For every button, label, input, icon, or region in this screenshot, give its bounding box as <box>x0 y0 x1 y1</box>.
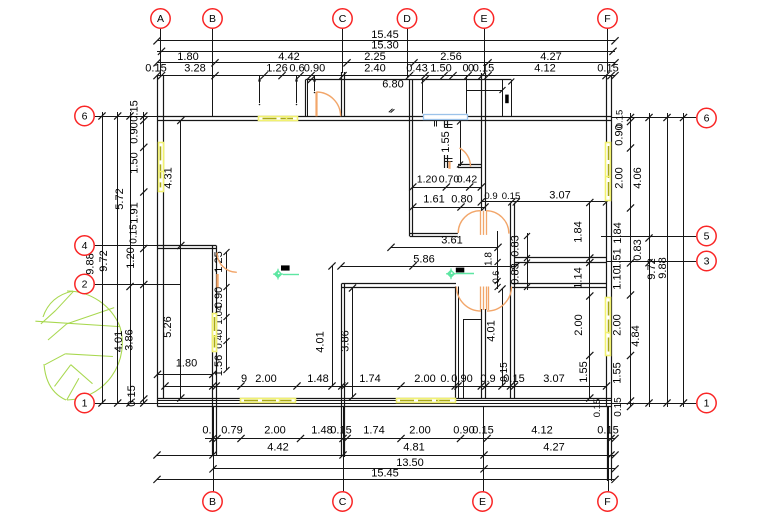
svg-text:0.43: 0.43 <box>406 63 427 75</box>
svg-text:4.01: 4.01 <box>486 320 498 341</box>
svg-text:4.81: 4.81 <box>403 442 424 454</box>
svg-text:5.86: 5.86 <box>413 253 434 265</box>
svg-text:4.27: 4.27 <box>543 442 564 454</box>
svg-text:A: A <box>157 13 164 25</box>
svg-text:0.: 0. <box>440 373 449 385</box>
svg-text:2.25: 2.25 <box>364 51 385 63</box>
svg-text:1.80: 1.80 <box>176 358 197 370</box>
svg-text:1.14: 1.14 <box>573 267 585 288</box>
svg-text:2.00: 2.00 <box>409 425 430 437</box>
svg-text:0.83: 0.83 <box>632 239 644 260</box>
svg-text:1.84: 1.84 <box>612 222 624 243</box>
svg-text:3.61: 3.61 <box>441 235 462 247</box>
svg-text:1.48: 1.48 <box>307 373 328 385</box>
svg-text:F: F <box>604 496 610 508</box>
svg-text:4.42: 4.42 <box>267 442 288 454</box>
svg-text:C: C <box>339 13 347 25</box>
svg-text:1.56: 1.56 <box>213 355 225 376</box>
svg-text:2.00: 2.00 <box>612 314 624 335</box>
svg-text:2.00: 2.00 <box>264 425 285 437</box>
svg-text:E: E <box>480 13 487 25</box>
svg-text:C: C <box>339 496 347 508</box>
svg-text:1.84: 1.84 <box>573 221 585 242</box>
svg-text:6: 6 <box>704 113 710 125</box>
svg-text:4.42: 4.42 <box>278 51 299 63</box>
svg-text:0.9: 0.9 <box>484 191 497 202</box>
svg-text:2.56: 2.56 <box>440 51 461 63</box>
svg-text:4.12: 4.12 <box>531 425 552 437</box>
svg-text:15.45: 15.45 <box>371 467 399 479</box>
svg-text:3.07: 3.07 <box>549 189 570 201</box>
svg-text:2.00: 2.00 <box>414 373 435 385</box>
svg-text:15.30: 15.30 <box>371 40 399 52</box>
svg-text:2: 2 <box>82 279 88 291</box>
svg-text:1.61: 1.61 <box>423 193 444 205</box>
svg-text:1: 1 <box>82 398 88 410</box>
svg-text:0.79: 0.79 <box>221 425 242 437</box>
svg-text:2.00: 2.00 <box>573 314 585 335</box>
svg-text:0.83: 0.83 <box>510 235 522 256</box>
svg-text:0.6: 0.6 <box>491 271 501 284</box>
svg-text:1.91: 1.91 <box>129 202 141 223</box>
svg-text:0.15: 0.15 <box>597 425 618 437</box>
svg-text:4.12: 4.12 <box>534 63 555 75</box>
svg-text:0.15: 0.15 <box>502 191 521 202</box>
svg-text:1.8: 1.8 <box>484 252 495 266</box>
svg-text:1.50: 1.50 <box>129 152 141 173</box>
svg-text:0.90: 0.90 <box>213 287 225 308</box>
svg-text:2.00: 2.00 <box>614 167 626 188</box>
svg-text:1.20: 1.20 <box>125 247 137 268</box>
svg-text:3.86: 3.86 <box>340 330 352 351</box>
svg-text:0.9: 0.9 <box>480 373 495 385</box>
svg-text:4.01: 4.01 <box>113 331 125 352</box>
svg-text:E: E <box>479 496 486 508</box>
svg-text:5.72: 5.72 <box>114 188 126 209</box>
svg-text:D: D <box>403 13 411 25</box>
svg-text:5: 5 <box>704 231 710 243</box>
svg-text:0.90: 0.90 <box>614 124 626 145</box>
svg-text:4.06: 4.06 <box>632 167 644 188</box>
svg-text:2.40: 2.40 <box>364 63 385 75</box>
svg-text:9.88: 9.88 <box>85 253 97 274</box>
svg-text:0.15: 0.15 <box>613 397 624 417</box>
svg-text:1.80: 1.80 <box>177 51 198 63</box>
svg-text:1.55: 1.55 <box>440 131 452 152</box>
svg-text:3.28: 3.28 <box>184 63 205 75</box>
svg-text:4.84: 4.84 <box>630 325 642 346</box>
svg-text:0.15: 0.15 <box>129 100 141 121</box>
svg-text:4: 4 <box>82 240 88 252</box>
svg-text:0.15: 0.15 <box>129 224 140 244</box>
svg-text:1.10: 1.10 <box>612 268 624 289</box>
svg-text:13.50: 13.50 <box>396 457 424 469</box>
svg-text:2.00: 2.00 <box>255 373 276 385</box>
svg-text:F: F <box>604 13 610 25</box>
svg-text:0.90: 0.90 <box>451 373 472 385</box>
svg-text:4.01: 4.01 <box>315 331 327 352</box>
svg-text:6: 6 <box>82 111 88 123</box>
svg-text:0.15: 0.15 <box>592 399 603 418</box>
svg-text:1.55: 1.55 <box>578 361 590 382</box>
svg-text:1.74: 1.74 <box>359 373 380 385</box>
svg-text:0.15: 0.15 <box>503 373 524 385</box>
svg-text:6.80: 6.80 <box>382 79 403 91</box>
svg-text:0.83: 0.83 <box>510 263 522 284</box>
svg-text:1: 1 <box>704 398 710 410</box>
svg-text:0.15: 0.15 <box>126 385 138 406</box>
svg-text:9.88: 9.88 <box>657 257 669 278</box>
svg-text:4.27: 4.27 <box>540 51 561 63</box>
svg-text:3: 3 <box>704 256 710 268</box>
svg-text:0.90: 0.90 <box>129 122 141 143</box>
svg-text:3.07: 3.07 <box>543 373 564 385</box>
svg-text:1.55: 1.55 <box>612 362 624 383</box>
svg-text:B: B <box>209 13 216 25</box>
svg-text:9.72: 9.72 <box>98 250 110 271</box>
svg-text:3.86: 3.86 <box>124 329 136 350</box>
svg-text:0.42: 0.42 <box>457 174 478 186</box>
svg-text:5.26: 5.26 <box>162 316 174 337</box>
svg-text:1.50: 1.50 <box>430 63 451 75</box>
svg-text:1.51: 1.51 <box>612 248 624 269</box>
svg-text:9: 9 <box>241 373 247 385</box>
svg-text:B: B <box>209 496 216 508</box>
svg-text:1.20: 1.20 <box>417 174 438 186</box>
svg-text:0.: 0. <box>202 425 211 437</box>
svg-text:0.80: 0.80 <box>451 193 472 205</box>
svg-text:1.74: 1.74 <box>363 425 384 437</box>
